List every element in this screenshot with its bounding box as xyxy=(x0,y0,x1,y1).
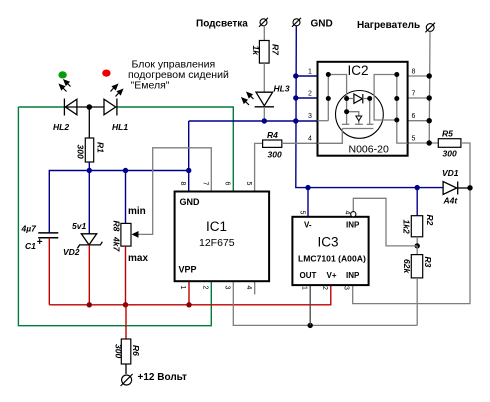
svg-text:6: 6 xyxy=(224,182,231,186)
resistor R2 xyxy=(411,216,422,237)
svg-text:300: 300 xyxy=(443,149,457,159)
resistor R3 xyxy=(416,246,418,255)
wire IC1 pin4 stub xyxy=(254,281,256,294)
wire R5 to VD1 cathode column xyxy=(353,143,470,304)
IC2 internal junction dots xyxy=(326,72,400,123)
svg-text:300: 300 xyxy=(114,344,124,358)
op-amp IC3 box xyxy=(292,217,368,285)
MOSFET relay IC2 box xyxy=(318,62,408,156)
terminal Нагреватель xyxy=(425,23,435,33)
zener diode VD2 xyxy=(77,234,102,249)
svg-text:C1: C1 xyxy=(25,241,36,251)
svg-text:1k2: 1k2 xyxy=(402,220,412,234)
svg-text:HL2: HL2 xyxy=(53,122,69,132)
IC3 pin numbers xyxy=(299,211,351,291)
svg-text:1: 1 xyxy=(179,286,186,290)
title text xyxy=(128,59,229,92)
svg-text:INP: INP xyxy=(346,271,360,280)
terminal GND xyxy=(292,18,301,27)
resistor R1 xyxy=(88,107,90,138)
red indicator dot xyxy=(102,70,110,77)
diode VD1 xyxy=(443,182,470,195)
svg-text:6: 6 xyxy=(412,113,416,120)
svg-text:N006-20: N006-20 xyxy=(349,144,389,156)
svg-text:4: 4 xyxy=(308,136,312,143)
wire green net (IC1 pin2 / pin6 border loop) xyxy=(18,107,233,326)
svg-text:62k: 62k xyxy=(402,259,412,274)
green indicator dot xyxy=(58,71,66,78)
svg-text:R5: R5 xyxy=(442,129,453,139)
svg-text:R7: R7 xyxy=(271,44,281,56)
resistor R6 xyxy=(125,305,127,339)
wire IC3 pin1 stub xyxy=(309,285,311,325)
wire red bus y=304.8 xyxy=(49,281,331,305)
svg-text:4: 4 xyxy=(245,286,252,290)
LED HL3 xyxy=(255,92,274,107)
junction VD1 cathode xyxy=(467,185,472,190)
IC2 pin numbers left xyxy=(308,69,312,143)
svg-text:2: 2 xyxy=(321,286,328,290)
svg-text:VD1: VD1 xyxy=(442,168,459,178)
svg-text:+12 Вольт: +12 Вольт xyxy=(138,372,187,383)
svg-text:5: 5 xyxy=(299,211,306,215)
junction HL1/HL2/R1 node xyxy=(87,104,93,110)
svg-text:1: 1 xyxy=(308,69,312,76)
IC2 internal body diode xyxy=(347,94,370,103)
svg-text:300: 300 xyxy=(76,145,86,159)
wire blue row y=121 (HL3/IC2 pin3 net) xyxy=(189,120,318,122)
HL1 emission arrows xyxy=(111,85,123,97)
svg-text:"Емеля": "Емеля" xyxy=(131,80,170,92)
wire IC3 pin4 to R2/R3 junction xyxy=(353,198,417,246)
svg-text:R2: R2 xyxy=(425,215,435,226)
wire blue bus y=170.5 xyxy=(49,121,188,234)
IC3 pin4 inversion bubble xyxy=(351,212,356,217)
LED HL1 xyxy=(104,99,117,116)
svg-text:GND: GND xyxy=(311,19,333,30)
capacitor C1 xyxy=(38,233,58,238)
svg-text:R6: R6 xyxy=(131,345,141,356)
IC1 microcontroller box xyxy=(175,192,270,282)
svg-text:3: 3 xyxy=(224,286,231,290)
junction HL3 node xyxy=(262,118,267,123)
svg-text:GND: GND xyxy=(180,197,201,207)
svg-text:V+: V+ xyxy=(327,271,337,280)
svg-text:IC1: IC1 xyxy=(206,219,227,234)
junction dots on blue bus xyxy=(87,168,192,173)
wire IC1 pin8 stub xyxy=(188,171,190,192)
IC2 internal circuit xyxy=(318,75,408,144)
junction dots heater bus xyxy=(427,73,432,145)
junction R2/R3 xyxy=(415,243,420,248)
resistor R4 xyxy=(255,143,263,191)
IC2 right pin wires and heater bus xyxy=(408,32,439,144)
IC2 pin numbers right xyxy=(412,69,416,143)
svg-text:5: 5 xyxy=(245,182,252,186)
svg-text:OUT: OUT xyxy=(300,271,317,280)
svg-text:R1: R1 xyxy=(96,142,106,153)
wire IC1 pin3 to bottom line xyxy=(233,281,417,325)
svg-text:4k7: 4k7 xyxy=(112,236,122,252)
HL3 emission arrows xyxy=(242,93,254,106)
svg-text:1: 1 xyxy=(301,286,308,290)
svg-text:VD2: VD2 xyxy=(63,247,80,257)
resistor R7 xyxy=(263,26,265,41)
HL2 emission arrows xyxy=(60,80,71,92)
svg-text:Нагреватель: Нагреватель xyxy=(357,20,420,31)
svg-text:min: min xyxy=(128,206,146,217)
wire LED row middle segment xyxy=(64,106,104,108)
junction dots on red bus xyxy=(87,302,192,307)
svg-text:LMC7101 (A00A): LMC7101 (A00A) xyxy=(298,254,366,264)
svg-text:HL1: HL1 xyxy=(112,122,128,132)
svg-text:VPP: VPP xyxy=(179,265,197,275)
svg-text:+: + xyxy=(37,237,43,248)
svg-text:4: 4 xyxy=(344,211,351,215)
svg-text:IC3: IC3 xyxy=(318,235,339,250)
svg-text:R4: R4 xyxy=(267,130,278,140)
svg-text:R8: R8 xyxy=(112,221,122,232)
svg-text:2: 2 xyxy=(308,91,312,98)
terminal +12V xyxy=(121,374,133,386)
svg-text:A4t: A4t xyxy=(443,196,459,206)
junction dots GND net xyxy=(293,73,420,190)
svg-text:4µ7: 4µ7 xyxy=(21,224,38,234)
svg-text:Подсветка: Подсветка xyxy=(196,19,248,30)
svg-text:12F675: 12F675 xyxy=(199,237,235,249)
IC1 pin numbers top xyxy=(179,182,252,186)
svg-text:R3: R3 xyxy=(423,257,433,268)
IC1 pin numbers bottom xyxy=(179,286,252,290)
svg-text:1k: 1k xyxy=(251,46,261,57)
svg-text:V-: V- xyxy=(304,221,312,230)
svg-text:INP: INP xyxy=(346,221,360,230)
svg-text:HL3: HL3 xyxy=(274,84,290,94)
svg-text:7: 7 xyxy=(412,91,416,98)
svg-text:8: 8 xyxy=(179,182,186,186)
R8 wiper arrow and wire to IC1 pin7 xyxy=(137,148,211,235)
svg-text:5: 5 xyxy=(412,136,416,143)
resistor R5 xyxy=(438,139,461,148)
svg-text:IC2: IC2 xyxy=(348,63,369,78)
svg-text:max: max xyxy=(128,253,148,264)
IC2 gate arrow (open) xyxy=(356,116,362,121)
terminal Подсветка xyxy=(259,18,268,27)
svg-text:3: 3 xyxy=(343,286,350,290)
wire GND net vertical (blue) xyxy=(296,26,443,217)
svg-text:300: 300 xyxy=(268,150,282,160)
potentiometer R8 xyxy=(121,223,131,246)
junction IC3 pin1 on bottom line xyxy=(308,323,313,328)
svg-text:3: 3 xyxy=(308,113,312,120)
svg-text:7: 7 xyxy=(202,182,209,186)
LED HL2 xyxy=(64,99,77,116)
svg-text:8: 8 xyxy=(412,69,416,76)
IC3 pin labels xyxy=(300,221,361,281)
svg-text:2: 2 xyxy=(202,286,209,290)
svg-text:5v1: 5v1 xyxy=(72,221,86,231)
